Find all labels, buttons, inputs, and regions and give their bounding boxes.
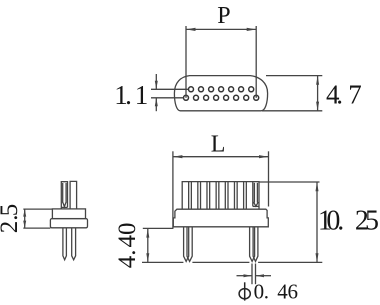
svg-text:0.46: 0.46	[254, 279, 298, 303]
dimension 2.5 extension lines	[23, 209, 52, 228]
side view body upper block	[52, 209, 85, 219]
svg-text:10.25: 10.25	[318, 206, 379, 237]
contact holes bottom row (8)	[184, 95, 259, 100]
svg-text:P: P	[217, 3, 230, 29]
side view body lower block	[50, 219, 87, 228]
dimension phi0.46 extension lines	[252, 264, 256, 285]
front view insulator body	[173, 209, 268, 227]
dimension 4.7 extension lines	[262, 76, 322, 111]
side view right leg	[72, 228, 76, 260]
svg-text:4.40: 4.40	[114, 222, 141, 268]
front view pin separators	[189, 182, 247, 210]
dimension 1.1 arrow lines	[155, 74, 158, 111]
front view right leg pair	[250, 227, 258, 262]
front view left leg pair	[184, 227, 193, 262]
dimension L dimension line with arrows	[173, 155, 269, 158]
front view pin comb outline	[182, 182, 259, 210]
dimension phi0.46 label	[239, 282, 250, 300]
side view left leg	[63, 228, 67, 260]
dimension 4.7 dimension line with arrows	[316, 76, 319, 111]
svg-text:2.5: 2.5	[0, 204, 23, 234]
contact holes top row (7)	[189, 87, 254, 92]
leg tip datum line	[142, 261, 322, 263]
dimension phi0.46 arrow lines	[237, 274, 272, 277]
dimension 4.40 extension line	[143, 227, 174, 229]
svg-text:4.7: 4.7	[326, 79, 362, 109]
front view hollow contact pin	[253, 182, 259, 207]
dimension P dimension line with arrows	[186, 28, 256, 31]
dimension L extension lines	[173, 151, 269, 228]
svg-text:1.1: 1.1	[114, 80, 148, 110]
side view hollow contact pin	[61, 182, 67, 209]
top view connector shell outline (obround)	[174, 76, 267, 111]
svg-text:L: L	[211, 132, 226, 158]
side view plain pin	[70, 181, 77, 209]
dimension 2.5 dimension line with arrows	[23, 209, 26, 228]
dimension 4.40 dimension line with arrows	[146, 228, 149, 262]
dimension 1.1 extension lines	[151, 89, 188, 98]
dimension 10.25 dimension line with arrows	[316, 182, 319, 262]
dimension 10.25 extension line	[260, 181, 320, 183]
dimension P extension lines	[186, 26, 256, 98]
